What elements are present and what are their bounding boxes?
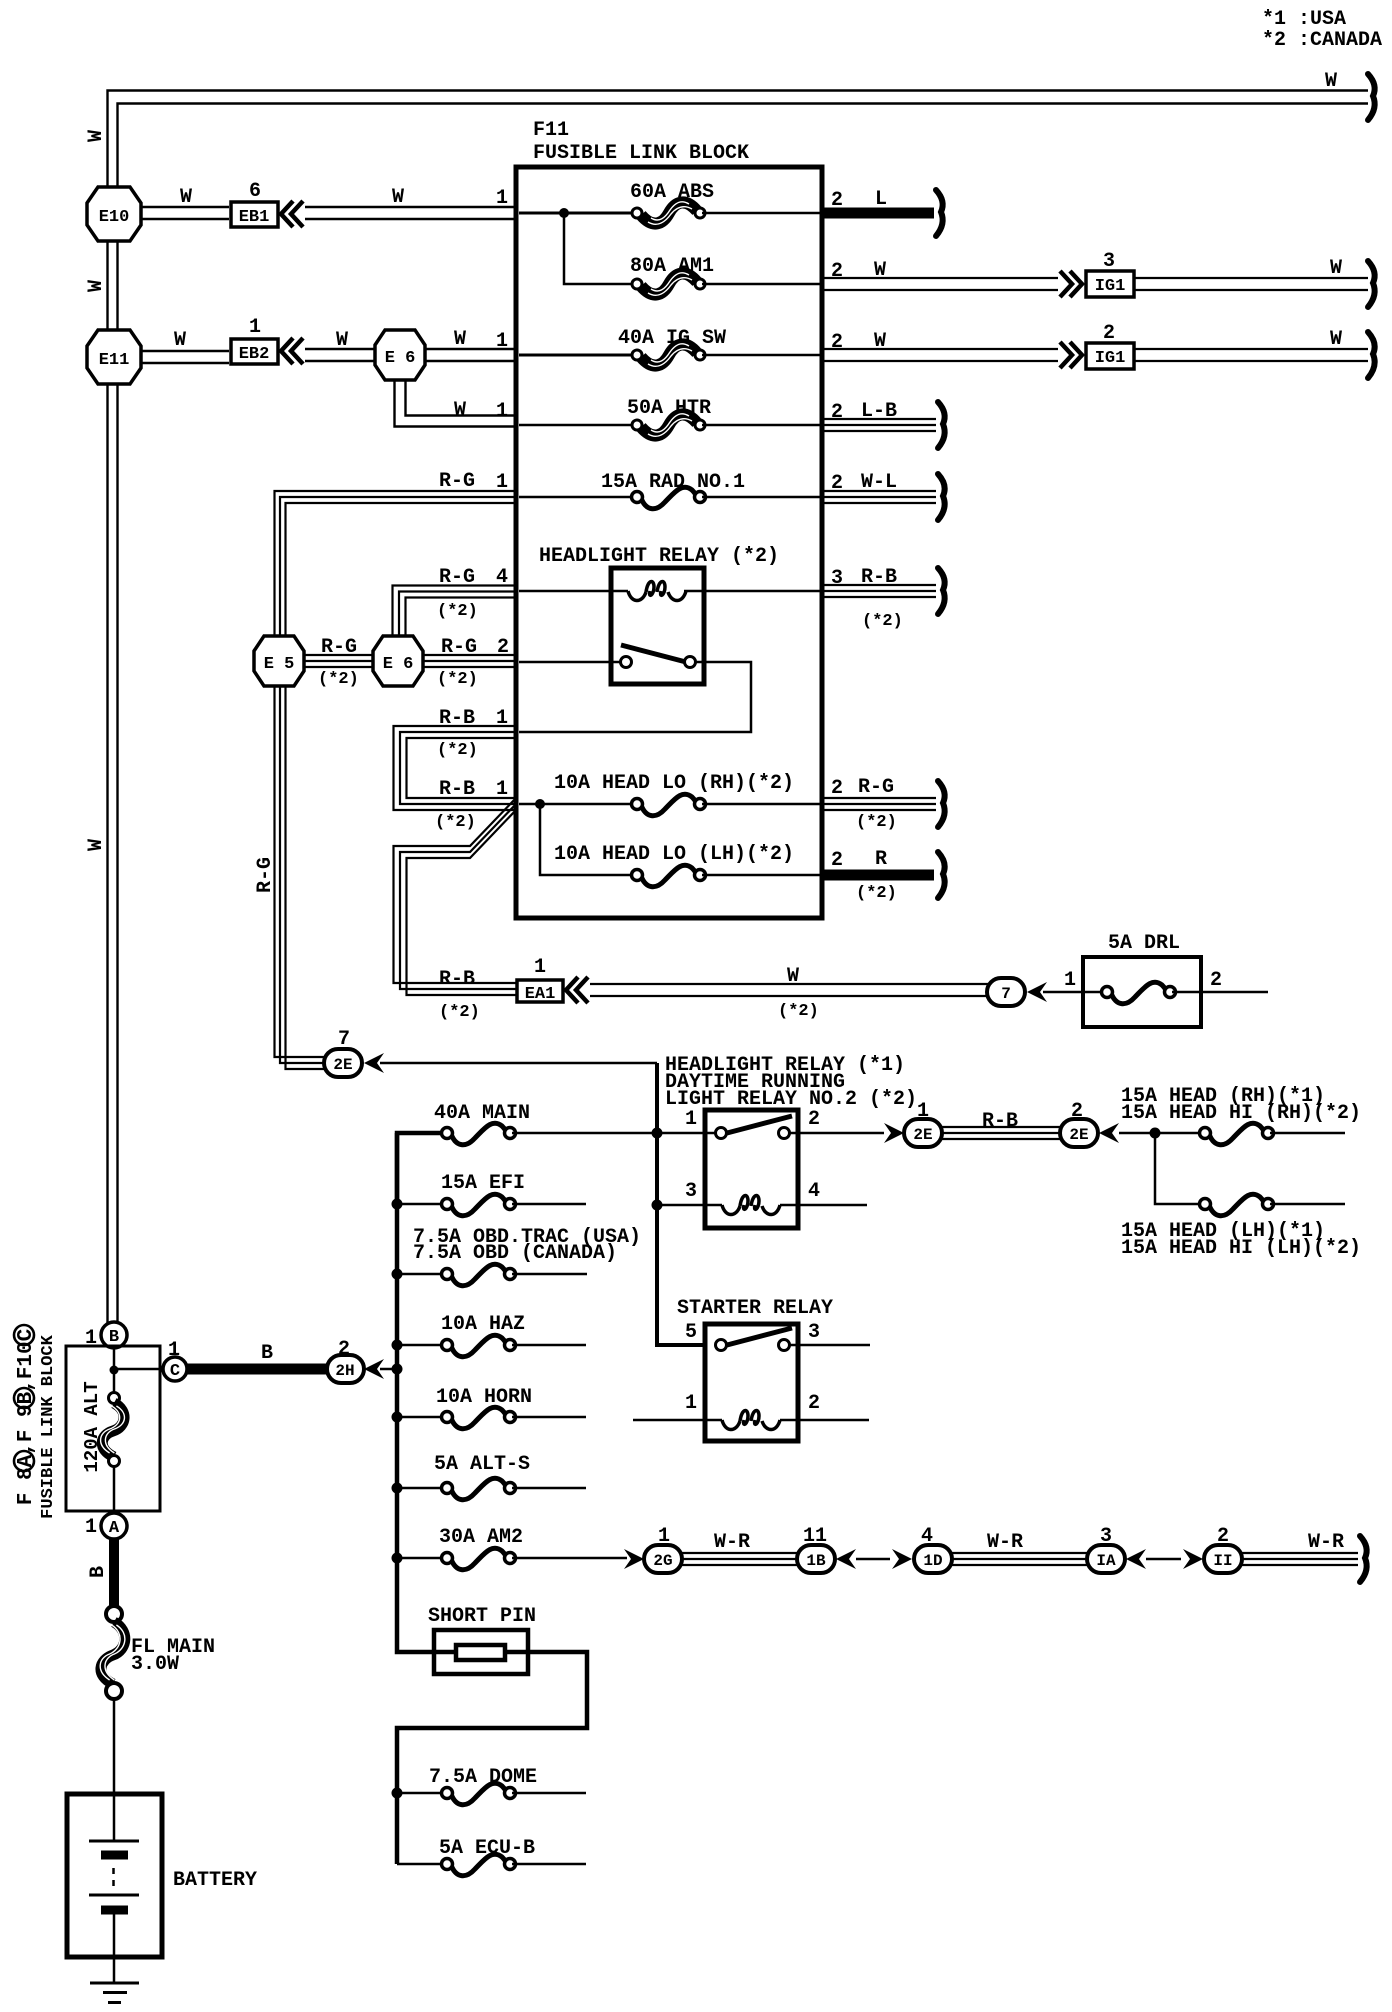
relay #1 switch xyxy=(716,1116,793,1139)
svg-text:W: W xyxy=(85,839,108,851)
fusible link block label vertical xyxy=(14,1325,58,1519)
junction head fuses xyxy=(1150,1128,1161,1139)
relay #2 switch xyxy=(621,645,696,668)
chevron at EB1 xyxy=(281,201,303,227)
5A DRL fuse box xyxy=(1083,932,1268,1027)
junction inside block xyxy=(110,1366,119,1375)
fuse 80A AM1 xyxy=(630,255,820,295)
svg-text:E11: E11 xyxy=(99,351,130,370)
svg-text:3.0W: 3.0W xyxy=(131,1653,179,1676)
svg-text:1: 1 xyxy=(496,471,508,494)
svg-text:C: C xyxy=(170,1362,180,1381)
svg-text:E 6: E 6 xyxy=(383,655,414,674)
connector II xyxy=(1204,1525,1242,1573)
arrow at IA xyxy=(1126,1549,1146,1569)
connector E11 xyxy=(87,330,141,384)
wire W E6 to 50A HTR xyxy=(395,380,517,427)
svg-text:2: 2 xyxy=(808,1392,820,1415)
svg-text:1: 1 xyxy=(685,1392,697,1415)
wire 1B to 1D xyxy=(856,1558,890,1561)
wire IA to II xyxy=(1146,1558,1181,1561)
wire L-B output row 4 xyxy=(822,400,945,448)
svg-text:(*2): (*2) xyxy=(439,1003,480,1022)
wire inside block from B xyxy=(113,1348,116,1393)
wire W E11 to EB2 xyxy=(141,329,229,363)
wire junction to HEAD LO LH xyxy=(540,804,633,875)
svg-text:1: 1 xyxy=(496,778,508,801)
wire W EB2 to E6 xyxy=(305,329,375,361)
connector 1B xyxy=(797,1525,835,1573)
svg-text:B: B xyxy=(261,1342,273,1365)
wire W-L output row 5 xyxy=(822,471,945,520)
wire B bar below A xyxy=(87,1539,114,1607)
arrow into 1D xyxy=(892,1549,912,1569)
svg-text:4: 4 xyxy=(808,1180,820,1203)
svg-text:1: 1 xyxy=(496,400,508,423)
wire L output row 1 xyxy=(822,188,943,236)
fuse 15A RAD NO.1 xyxy=(519,471,820,509)
svg-text:W: W xyxy=(85,130,108,142)
svg-text:F11: F11 xyxy=(533,119,569,142)
connector 7 oval xyxy=(987,978,1025,1006)
wire W EB1 to F11 pin 1 xyxy=(305,186,516,219)
svg-text:15A HEAD HI (RH)(*2): 15A HEAD HI (RH)(*2) xyxy=(1121,1102,1361,1125)
fuse 40A MAIN xyxy=(397,1102,716,1204)
node A circled xyxy=(85,1513,127,1539)
svg-text:1: 1 xyxy=(685,1108,697,1131)
wire R-G 4 from E6 lower top xyxy=(393,566,517,637)
connector 2E (from E5) xyxy=(324,1028,362,1077)
svg-text:5A DRL: 5A DRL xyxy=(1108,932,1180,955)
svg-text:2: 2 xyxy=(831,849,843,872)
svg-text:10A HEAD LO (RH)(*2): 10A HEAD LO (RH)(*2) xyxy=(554,772,794,795)
wire battery to ground xyxy=(113,1914,116,1983)
svg-text:7.5A OBD (CANADA): 7.5A OBD (CANADA) xyxy=(413,1242,617,1265)
svg-text:2: 2 xyxy=(831,260,843,283)
arrow into II xyxy=(1183,1549,1203,1569)
connector E6 lower xyxy=(373,636,423,686)
svg-text:EB2: EB2 xyxy=(239,345,270,364)
svg-text:F 8A,F 9B,F10C: F 8A,F 9B,F10C xyxy=(15,1328,38,1505)
ground xyxy=(90,1983,139,2003)
svg-text:(*2): (*2) xyxy=(862,612,903,631)
svg-text:30A AM2: 30A AM2 xyxy=(439,1526,523,1549)
svg-text:1: 1 xyxy=(496,330,508,353)
svg-text:W: W xyxy=(787,965,799,988)
svg-text:R-B: R-B xyxy=(439,778,475,801)
svg-text:3: 3 xyxy=(831,567,843,590)
svg-text:15A EFI: 15A EFI xyxy=(441,1172,525,1195)
svg-text:W: W xyxy=(180,186,192,209)
junction relay bus at switch row xyxy=(652,1128,663,1139)
headlight relay #2 box xyxy=(611,568,704,684)
connector 2E left xyxy=(904,1100,942,1147)
svg-text:(*2): (*2) xyxy=(318,670,359,689)
wire to 5A DRL xyxy=(1043,969,1083,992)
wire W-R 2G to 1B xyxy=(682,1531,797,1565)
fuse 15A HEAD LH xyxy=(1121,1194,1361,1260)
wire R-G 2 E6 to F11 xyxy=(423,636,516,689)
svg-text:3: 3 xyxy=(685,1180,697,1203)
fuse 10A HORN xyxy=(392,1386,587,1429)
svg-text:7: 7 xyxy=(1001,985,1011,1003)
svg-text:(*2): (*2) xyxy=(856,884,897,903)
F11 fusible link block box xyxy=(516,167,822,918)
connector EB1 xyxy=(231,180,278,227)
wire junction down to LH fuse xyxy=(1155,1133,1202,1204)
svg-text:2: 2 xyxy=(831,331,843,354)
svg-text:*1 :USA: *1 :USA xyxy=(1262,8,1346,31)
svg-text:IA: IA xyxy=(1096,1552,1116,1570)
wire R-B 1 U-loop xyxy=(394,707,517,832)
starter relay switch xyxy=(716,1328,793,1351)
fuse 5A ECU-B xyxy=(397,1837,586,1876)
fuse 5A ALT-S xyxy=(392,1453,587,1500)
svg-text:2: 2 xyxy=(831,401,843,424)
svg-text:2G: 2G xyxy=(653,1552,672,1570)
svg-text:5: 5 xyxy=(685,1321,697,1344)
fusible link FL MAIN 3.0W xyxy=(100,1606,215,1699)
fuse 60A ABS xyxy=(519,181,820,224)
connector 1D xyxy=(914,1525,952,1573)
wire W IG1 to right edge row 3 xyxy=(1134,328,1375,378)
connector E5 xyxy=(254,636,304,686)
battery cell plates xyxy=(89,1841,139,1910)
relay #2 coil xyxy=(628,582,686,601)
svg-text:2E: 2E xyxy=(1069,1126,1088,1144)
svg-text:STARTER RELAY: STARTER RELAY xyxy=(677,1297,833,1320)
svg-text:1B: 1B xyxy=(806,1552,826,1570)
svg-text:*2 :CANADA: *2 :CANADA xyxy=(1262,29,1382,52)
arrow into 2E xyxy=(364,1053,384,1073)
relay #1 coil row xyxy=(657,1196,867,1215)
wire W EA1 to connector 7 xyxy=(590,965,988,1021)
svg-text:10A HAZ: 10A HAZ xyxy=(441,1313,525,1336)
wire W output row 2 to IG1 xyxy=(822,259,1058,290)
svg-text:4: 4 xyxy=(496,566,508,589)
wire R-B output coil row xyxy=(822,566,945,631)
svg-text:1: 1 xyxy=(249,316,261,339)
arrow into 2E right xyxy=(1099,1123,1119,1143)
arrow at 1B xyxy=(836,1549,856,1569)
wire W E10 to EB1 xyxy=(141,186,229,219)
svg-text:W: W xyxy=(1330,328,1342,351)
relay #2 switch row wire xyxy=(519,661,621,664)
svg-text:W: W xyxy=(392,186,404,209)
wire to head fuses xyxy=(1119,1132,1202,1135)
svg-text:II: II xyxy=(1213,1552,1232,1570)
svg-text:(*2): (*2) xyxy=(437,670,478,689)
wire R-G E5 to E6 lower xyxy=(304,636,373,689)
svg-text:R-G: R-G xyxy=(441,636,477,659)
svg-text:W: W xyxy=(1330,257,1342,280)
junction relay bus at coil row xyxy=(652,1200,663,1211)
connector E6 upper xyxy=(375,330,425,380)
svg-text:IG1: IG1 xyxy=(1095,349,1126,368)
short pin element xyxy=(456,1645,505,1660)
wire 2E to relay bus xyxy=(380,1062,657,1065)
svg-text:120A ALT: 120A ALT xyxy=(81,1381,103,1472)
svg-text:(*2): (*2) xyxy=(435,813,476,832)
svg-text:1D: 1D xyxy=(923,1552,942,1570)
svg-text:10A HEAD LO (LH)(*2): 10A HEAD LO (LH)(*2) xyxy=(554,843,794,866)
wire junction to C xyxy=(114,1368,164,1371)
svg-text:EA1: EA1 xyxy=(525,985,556,1004)
wire R output HEAD LO LH xyxy=(822,848,945,903)
wire R-G output HEAD LO RH xyxy=(822,776,945,832)
svg-text:W: W xyxy=(1325,70,1337,93)
wire W output row 3 to IG1 xyxy=(822,330,1058,361)
svg-text:R-G: R-G xyxy=(439,470,475,493)
node C circled xyxy=(163,1339,187,1381)
svg-text:W: W xyxy=(85,280,108,292)
wire W E6 to F11 40A IG SW xyxy=(425,328,516,361)
connector EA1 xyxy=(439,956,563,1022)
fuse 10A HEAD LO (RH) xyxy=(519,772,820,816)
svg-text:2: 2 xyxy=(808,1108,820,1131)
svg-text:3: 3 xyxy=(1103,250,1115,273)
svg-text:2: 2 xyxy=(831,777,843,800)
svg-text:3: 3 xyxy=(808,1321,820,1344)
svg-text:E 5: E 5 xyxy=(264,655,295,674)
starter relay box xyxy=(705,1324,798,1441)
wire R-G to 15A RAD xyxy=(275,470,517,637)
fuse 10A HEAD LO (LH) xyxy=(554,843,820,887)
svg-text:7.5A DOME: 7.5A DOME xyxy=(429,1766,537,1789)
wire relay #1 switch out to 2E xyxy=(789,1132,884,1135)
svg-text:1: 1 xyxy=(1064,969,1076,992)
connector IG1 pin 2 xyxy=(1086,322,1134,369)
relay #2 coil row wire xyxy=(519,590,628,593)
svg-text:40A MAIN: 40A MAIN xyxy=(434,1102,530,1125)
wire W-R 1D to IA xyxy=(952,1531,1087,1565)
svg-text:(*2): (*2) xyxy=(856,813,897,832)
svg-text:1: 1 xyxy=(496,187,508,210)
svg-text:R: R xyxy=(875,848,887,871)
connector IA xyxy=(1087,1525,1125,1573)
starter relay coil row xyxy=(633,1411,869,1430)
short pin outer box xyxy=(434,1630,528,1674)
arrow into 2E left xyxy=(884,1123,904,1143)
svg-text:FUSIBLE LINK BLOCK: FUSIBLE LINK BLOCK xyxy=(39,1334,58,1518)
svg-text:R-G: R-G xyxy=(439,566,475,589)
svg-text:W-R: W-R xyxy=(714,1531,750,1554)
fusible link 120A ALT xyxy=(101,1393,125,1514)
arrow into 2G xyxy=(624,1549,644,1569)
wire starter switch out xyxy=(789,1344,870,1347)
fuse 7.5A DOME xyxy=(392,1766,587,1805)
fuse 10A HAZ xyxy=(392,1313,587,1357)
svg-text:2: 2 xyxy=(1103,322,1115,345)
svg-text:(*2): (*2) xyxy=(437,741,478,760)
relay bus vertical wire xyxy=(657,1063,703,1345)
svg-text:10A HORN: 10A HORN xyxy=(436,1386,532,1409)
fuse 50A HTR xyxy=(519,397,820,436)
svg-text:2: 2 xyxy=(1210,969,1222,992)
svg-text:5A ALT-S: 5A ALT-S xyxy=(434,1453,530,1476)
chevron at EB2 xyxy=(281,338,303,364)
chevron into IG1 top xyxy=(1060,271,1082,297)
svg-text:A: A xyxy=(109,1519,120,1538)
svg-text:2: 2 xyxy=(497,636,509,659)
connector 2E right xyxy=(1060,1100,1098,1147)
svg-text:(*2): (*2) xyxy=(778,1002,819,1021)
wire W-R II to right edge xyxy=(1242,1531,1367,1582)
battery box xyxy=(67,1794,162,1957)
svg-text:W: W xyxy=(454,399,466,422)
connector EB2 xyxy=(231,316,278,364)
wire FL MAIN to battery xyxy=(113,1699,116,1841)
wire arrow to 2H xyxy=(380,1368,397,1371)
wire W top pair from E10 column to right edge xyxy=(108,70,1375,190)
fuse 40A IG SW xyxy=(519,327,820,366)
arrow into connector 7 xyxy=(1027,982,1047,1002)
fuse 15A HEAD RH xyxy=(1121,1085,1361,1145)
svg-text:R-G: R-G xyxy=(254,857,277,893)
connector IG1 pin 3 xyxy=(1086,250,1134,297)
svg-text:W: W xyxy=(336,329,348,352)
fusible link block box xyxy=(66,1346,160,1511)
svg-text:W-R: W-R xyxy=(1308,1531,1344,1554)
wire W E11 down to fusible link block xyxy=(85,384,118,1324)
headlight relay #1 box xyxy=(705,1110,798,1228)
svg-text:EB1: EB1 xyxy=(239,208,270,227)
svg-text:BATTERY: BATTERY xyxy=(173,1869,257,1892)
svg-text:R-B: R-B xyxy=(439,707,475,730)
svg-text:1: 1 xyxy=(496,707,508,730)
svg-text:B: B xyxy=(109,1328,119,1347)
svg-text:W-R: W-R xyxy=(987,1531,1023,1554)
fuse 7.5A OBD xyxy=(392,1226,642,1286)
svg-text:IG1: IG1 xyxy=(1095,277,1126,296)
chevron at EA1 xyxy=(566,977,588,1003)
svg-text:E10: E10 xyxy=(99,208,130,227)
svg-text:2E: 2E xyxy=(913,1126,932,1144)
svg-text:W: W xyxy=(174,329,186,352)
wire junction to 80A AM1 xyxy=(564,213,633,284)
svg-text:R-G: R-G xyxy=(321,636,357,659)
svg-text:(*2): (*2) xyxy=(437,602,478,621)
fuse 15A EFI xyxy=(392,1172,587,1216)
svg-text:E 6: E 6 xyxy=(385,349,416,368)
node B circled xyxy=(85,1322,127,1350)
svg-text:6: 6 xyxy=(249,180,261,203)
fuse 30A AM2 xyxy=(392,1526,628,1570)
svg-text:2H: 2H xyxy=(335,1362,354,1380)
wire R-B between 2E connectors xyxy=(942,1110,1060,1139)
svg-text:1: 1 xyxy=(85,1516,97,1539)
svg-text:15A HEAD HI (LH)(*2): 15A HEAD HI (LH)(*2) xyxy=(1121,1237,1361,1260)
chevron into IG1 bottom xyxy=(1060,342,1082,368)
wire R-B diagonal to EA1 xyxy=(394,798,517,995)
left fuse bus vertical xyxy=(397,1133,587,1864)
junction 2H feed xyxy=(392,1364,403,1375)
wire W E10 to E11 xyxy=(85,241,118,330)
svg-text:R-B: R-B xyxy=(439,968,475,991)
wire relay #2 switch to R-B 1 pin xyxy=(519,662,751,732)
connector 2G xyxy=(644,1525,682,1573)
wire R-G vertical E5 down to 2E xyxy=(254,686,326,1069)
wire W IG1 to right edge xyxy=(1134,257,1375,307)
svg-text:2E: 2E xyxy=(333,1056,352,1074)
svg-text:R-G: R-G xyxy=(858,776,894,799)
svg-text:W: W xyxy=(454,328,466,351)
connector 2H xyxy=(327,1338,364,1383)
svg-text:HEADLIGHT RELAY (*2): HEADLIGHT RELAY (*2) xyxy=(539,545,779,568)
svg-text:B: B xyxy=(87,1566,110,1578)
svg-text:1: 1 xyxy=(534,956,546,979)
wire B bar C to 2H xyxy=(187,1342,327,1369)
svg-text:FUSIBLE LINK BLOCK: FUSIBLE LINK BLOCK xyxy=(533,142,749,165)
svg-text:SHORT PIN: SHORT PIN xyxy=(428,1605,536,1628)
svg-text:R-B: R-B xyxy=(982,1110,1018,1133)
connector E10 xyxy=(87,187,141,241)
